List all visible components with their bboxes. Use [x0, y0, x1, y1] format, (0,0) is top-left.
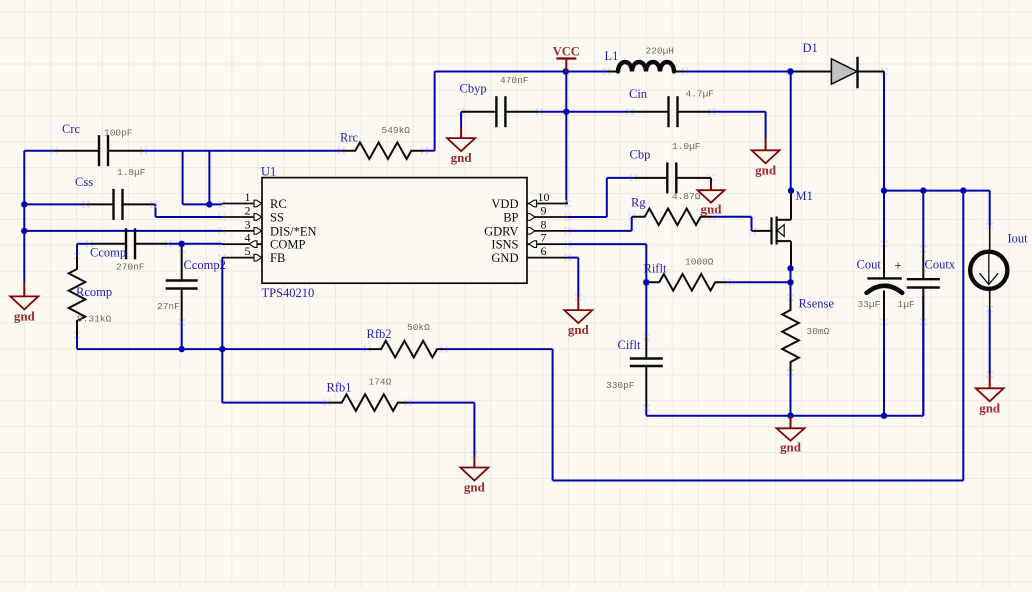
svg-text:8: 8 [541, 217, 547, 231]
svg-text:50kΩ: 50kΩ [407, 322, 430, 333]
svg-text:9.31kΩ: 9.31kΩ [77, 313, 112, 324]
svg-text:gnd: gnd [701, 202, 723, 217]
svg-text:4.7µF: 4.7µF [686, 89, 715, 100]
svg-text:gnd: gnd [755, 162, 777, 177]
svg-text:270nF: 270nF [116, 262, 145, 273]
svg-text:DIS/*EN: DIS/*EN [270, 225, 317, 239]
svg-text:1.0µF: 1.0µF [672, 141, 701, 152]
svg-text:gnd: gnd [464, 480, 486, 495]
svg-text:SS: SS [270, 211, 284, 225]
svg-text:27nF: 27nF [157, 301, 180, 312]
svg-text:Rsense: Rsense [799, 297, 835, 311]
svg-text:3: 3 [245, 217, 251, 231]
svg-text:1000Ω: 1000Ω [685, 256, 714, 267]
svg-text:2: 2 [245, 203, 251, 217]
svg-text:Rfb1: Rfb1 [327, 381, 352, 395]
svg-text:GND: GND [491, 251, 518, 265]
svg-text:Ccomp: Ccomp [90, 246, 126, 260]
svg-text:10: 10 [538, 190, 550, 204]
svg-text:5: 5 [245, 244, 251, 258]
svg-text:FB: FB [270, 251, 285, 265]
svg-text:VDD: VDD [491, 197, 518, 211]
svg-text:M1: M1 [796, 189, 813, 203]
svg-text:100pF: 100pF [104, 128, 133, 139]
svg-text:1: 1 [245, 190, 251, 204]
svg-text:gnd: gnd [780, 440, 802, 455]
svg-text:Rrc: Rrc [340, 131, 359, 145]
svg-text:BP: BP [503, 211, 518, 225]
svg-text:Cbyp: Cbyp [460, 82, 487, 96]
svg-text:9: 9 [541, 203, 547, 217]
svg-text:TPS40210: TPS40210 [262, 286, 315, 300]
svg-text:549kΩ: 549kΩ [382, 125, 411, 136]
svg-text:Rg: Rg [631, 196, 646, 210]
svg-text:ISNS: ISNS [491, 238, 518, 252]
svg-text:Cbp: Cbp [630, 148, 651, 162]
svg-text:U1: U1 [261, 165, 276, 179]
svg-text:Coutx: Coutx [925, 258, 956, 272]
svg-text:Ccomp2: Ccomp2 [184, 258, 226, 272]
svg-text:1µF: 1µF [898, 299, 915, 310]
svg-text:gnd: gnd [451, 150, 473, 165]
svg-text:4: 4 [245, 231, 251, 245]
svg-text:30mΩ: 30mΩ [807, 326, 830, 337]
svg-text:33µF: 33µF [858, 299, 881, 310]
svg-text:470nF: 470nF [500, 75, 529, 86]
svg-text:330pF: 330pF [606, 380, 635, 391]
svg-text:+: + [894, 258, 901, 273]
svg-text:Iout: Iout [1008, 232, 1029, 246]
svg-text:gnd: gnd [979, 400, 1001, 415]
svg-text:Cin: Cin [629, 87, 648, 101]
svg-text:COMP: COMP [270, 238, 305, 252]
svg-text:1.8µF: 1.8µF [117, 167, 146, 178]
svg-text:gnd: gnd [568, 322, 590, 337]
svg-text:Ciflt: Ciflt [618, 338, 641, 352]
svg-text:VCC: VCC [553, 45, 580, 59]
svg-text:Rfb2: Rfb2 [367, 327, 392, 341]
svg-text:Css: Css [75, 175, 93, 189]
svg-text:L1: L1 [605, 49, 619, 63]
svg-text:RC: RC [270, 197, 287, 211]
svg-text:GDRV: GDRV [484, 225, 518, 239]
svg-text:Cout: Cout [857, 258, 882, 272]
svg-text:6: 6 [541, 244, 547, 258]
svg-text:174Ω: 174Ω [369, 377, 392, 388]
svg-text:Crc: Crc [62, 122, 81, 136]
svg-text:Rcomp: Rcomp [76, 285, 112, 299]
svg-text:gnd: gnd [14, 308, 36, 323]
svg-text:D1: D1 [803, 41, 818, 55]
svg-text:7: 7 [541, 231, 547, 245]
svg-text:220µH: 220µH [646, 46, 675, 57]
svg-text:Riflt: Riflt [644, 262, 667, 276]
svg-text:4.87Ω: 4.87Ω [672, 191, 701, 202]
